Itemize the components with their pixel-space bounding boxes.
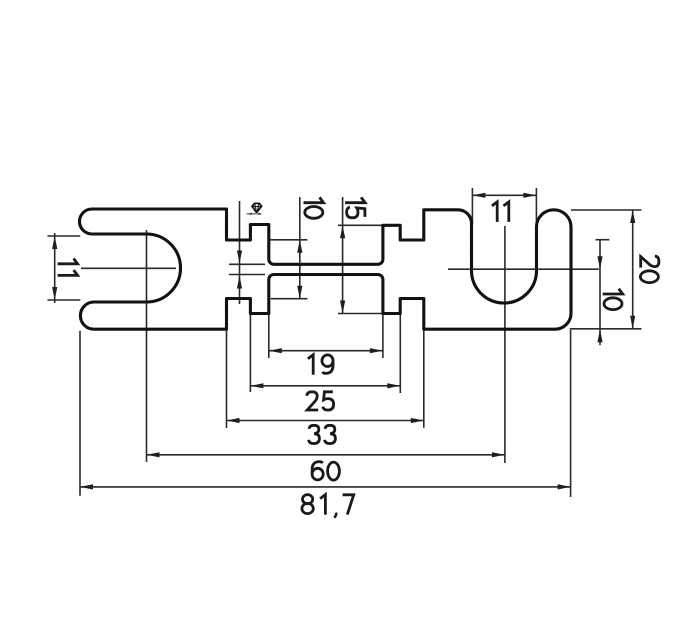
dimension text 10 right (rotated) xyxy=(603,289,623,310)
dimension text 10 top (rotated) xyxy=(304,197,324,218)
dim 10 top extension bottom xyxy=(271,298,308,300)
dimension text 15 (rotated) xyxy=(345,197,365,217)
extension line 81,7 left xyxy=(79,331,81,496)
arrows dim 11 top-right xyxy=(472,193,485,198)
dimension text 81,7 xyxy=(303,495,313,504)
dim 11 left extension top xyxy=(47,235,80,237)
extension line 33 left xyxy=(226,329,228,428)
dimension line 33 xyxy=(227,420,424,422)
arrows dim 33 xyxy=(227,418,240,423)
arrows dim 25 xyxy=(250,383,263,388)
arrows dim 10 right (outside) xyxy=(597,256,602,269)
extension line 81,7 right xyxy=(570,330,572,497)
strip extension bottom xyxy=(229,274,265,276)
centerline left slot xyxy=(81,267,176,269)
arrows dim 19 xyxy=(269,348,282,353)
dim 15 line xyxy=(342,197,344,314)
extension line 60 left (through part) xyxy=(146,230,148,462)
dimension line 19 xyxy=(269,350,383,352)
dim 11 left line xyxy=(54,233,56,303)
dimension line 60 xyxy=(147,454,505,456)
arrows dim 81,7 xyxy=(80,484,93,489)
dim 15 extension bottom xyxy=(338,313,383,315)
dimension text 11 top right xyxy=(492,202,509,222)
dimension line 25 xyxy=(250,385,400,387)
arrows strip dim (outside) xyxy=(237,251,242,264)
dim 11 left extension bottom xyxy=(47,299,80,301)
dim 11 top-right extension right xyxy=(535,188,537,231)
dimension text 33 xyxy=(309,425,320,443)
extension line 25 left xyxy=(249,314,251,393)
dim 11 top-right line xyxy=(472,194,536,196)
arrows dim 20 xyxy=(630,210,635,223)
arrows dim 11 left xyxy=(52,236,57,249)
part outline: strip fuse xyxy=(79,209,571,329)
arrows dim 60 xyxy=(147,452,160,457)
rotated dimension digits drawn as paths (Arial-like, no feet) xyxy=(58,197,659,309)
arrows dim 15 xyxy=(340,225,345,238)
dimension text 20 right (rotated) xyxy=(640,256,659,282)
strip extension top xyxy=(229,263,265,265)
extension line 25 right xyxy=(399,314,401,394)
dim 20 line xyxy=(632,210,634,329)
centerline right xyxy=(448,268,599,270)
dimension text 19 xyxy=(308,355,313,375)
dim 10 right top tick xyxy=(596,239,610,241)
arrows dim 10 top xyxy=(297,240,302,253)
dim 11 top-right extension left xyxy=(471,188,473,224)
gem logo symbol xyxy=(247,203,262,213)
dimension text 11 left (rotated) xyxy=(58,259,78,276)
strip dim line xyxy=(239,201,241,304)
dim 20 extension top xyxy=(571,209,642,211)
dim 20 extension bottom xyxy=(570,328,642,330)
extension line 33 right xyxy=(423,329,425,428)
extension line 60 right / right slot centerline xyxy=(504,226,506,463)
dim 10 right line xyxy=(599,240,601,346)
dim 15 extension top xyxy=(338,224,383,226)
dimension text 25 xyxy=(307,392,318,410)
dimension text 60 xyxy=(312,468,323,480)
extension line 19 left xyxy=(268,314,270,359)
dim 10 top extension top xyxy=(269,239,308,241)
extension line 19 right xyxy=(382,314,384,359)
dim 10 top line xyxy=(299,197,301,299)
dimension line 81,7 xyxy=(80,486,571,488)
